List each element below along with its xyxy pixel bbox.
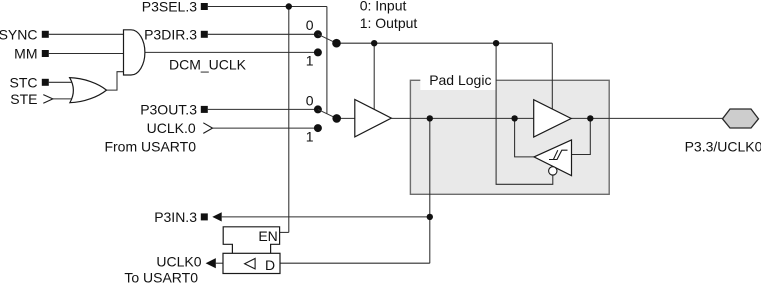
wire enable drop to pad driver (551, 43, 553, 112)
wire P3OUT.3 (208, 108, 318, 110)
chevron UCLK.0 (203, 123, 212, 134)
node junction on P3SEL.3 line (286, 3, 292, 9)
wire STE (53, 98, 73, 100)
port square MM (42, 50, 49, 57)
svg-text:1: 1 (306, 53, 314, 69)
wire SYNC (49, 33, 124, 35)
wire DCM_UCLK (AND output) (144, 51, 318, 53)
svg-text:MM: MM (14, 46, 37, 62)
wire pad driver to pad (571, 117, 723, 119)
svg-text:From USART0: From USART0 (104, 138, 196, 154)
schmitt hysteresis glyph (549, 150, 568, 159)
mux M1 switch 0 contact (314, 30, 322, 38)
mux M2 switch 0 contact (314, 105, 322, 113)
svg-text:0: 0 (306, 93, 314, 109)
node junction P3IN / input branch (427, 214, 433, 220)
svg-text:P3SEL.3: P3SEL.3 (142, 0, 197, 15)
svg-text:UCLK0: UCLK0 (156, 254, 201, 270)
pad logic box (410, 72, 609, 195)
svg-text:P3.3/UCLK0: P3.3/UCLK0 (685, 139, 761, 155)
svg-text:UCLK.0: UCLK.0 (147, 120, 196, 136)
wire UCLK0 stub to arrow (216, 262, 223, 264)
latch clock triangle (245, 258, 256, 269)
wire enable drop to output buffer (373, 43, 375, 112)
svg-text:Pad Logic: Pad Logic (429, 72, 491, 88)
mux M1 switch 1 contact (314, 48, 322, 56)
svg-text:0: 0 (306, 17, 314, 33)
wire buffer to pad driver (391, 117, 534, 119)
svg-text:STC: STC (10, 74, 38, 90)
svg-text:DCM_UCLK: DCM_UCLK (169, 56, 247, 72)
buffer U3 (output buffer) (355, 100, 392, 137)
wire EN stub (280, 231, 289, 233)
schmitt enable bubble (549, 167, 557, 175)
svg-text:P3DIR.3: P3DIR.3 (144, 26, 197, 42)
node junction dir/schmitt-enable (493, 40, 499, 46)
wire UCLK.0 from USART0 (213, 127, 318, 129)
svg-text:D: D (265, 257, 275, 273)
svg-text:1: 1 (306, 128, 314, 144)
svg-text:SYNC: SYNC (0, 26, 38, 42)
svg-text:P3IN.3: P3IN.3 (154, 209, 197, 225)
mux M2 switch 1 contact (314, 124, 322, 132)
mux M2 common contact (332, 114, 341, 123)
latch EN section (223, 227, 279, 254)
port square P3OUT.3 (201, 106, 208, 113)
arrow P3IN.3 (212, 212, 221, 221)
latch D box (223, 253, 280, 273)
svg-text:STE: STE (10, 91, 37, 107)
wire P3SEL.3 horizontal (208, 6, 327, 8)
mux M2 wiper line (318, 109, 337, 118)
wire P3IN.3 (222, 216, 430, 218)
port square P3IN.3 (201, 213, 208, 220)
port square STC (42, 79, 49, 86)
wire schmitt input from pad net (571, 118, 590, 154)
wire schmitt enable path (496, 43, 553, 184)
svg-text:P3OUT.3: P3OUT.3 (140, 101, 197, 117)
node junction pad net / schmitt in (587, 115, 593, 121)
mux M1 wiper line (318, 34, 337, 43)
svg-text:1: Output: 1: Output (360, 15, 418, 31)
wire P3DIR.3 (208, 33, 318, 35)
arrow UCLK0 (206, 258, 216, 268)
and-gate U1 (124, 30, 145, 75)
svg-text:0: Input: 0: Input (360, 0, 407, 14)
port square P3DIR.3 (201, 31, 208, 38)
wire latch D input (280, 262, 430, 264)
port square SYNC (42, 31, 49, 38)
schmitt trigger U5 (534, 140, 572, 176)
mux M1 common contact (332, 39, 341, 48)
wire MM (49, 53, 124, 55)
node junction dir/buffer-enable (371, 40, 377, 46)
node junction driver input / schmitt out (511, 115, 517, 121)
wire OR output jog into AND (106, 72, 123, 90)
pad P3.3/UCLK0 hexagon (723, 109, 759, 128)
svg-text:EN: EN (258, 228, 277, 244)
port square P3SEL.3 (201, 3, 208, 10)
wire input branch down from pad net (429, 118, 431, 263)
wire mux2 output to buffer (337, 117, 356, 119)
wire STC (49, 81, 73, 83)
wire schmitt output to driver input net (515, 118, 535, 156)
wire P3SEL.3 select control vertical to muxes (326, 7, 328, 114)
wire direction net (mux1 output) (337, 42, 553, 44)
wire P3SEL.3 branch down to latch EN (288, 7, 290, 233)
node junction pad net / input branch (427, 115, 433, 121)
chevron STE (43, 95, 53, 104)
svg-text:To USART0: To USART0 (124, 270, 198, 284)
or-gate U2 (70, 78, 107, 103)
buffer U4 (pad driver) (534, 100, 572, 137)
